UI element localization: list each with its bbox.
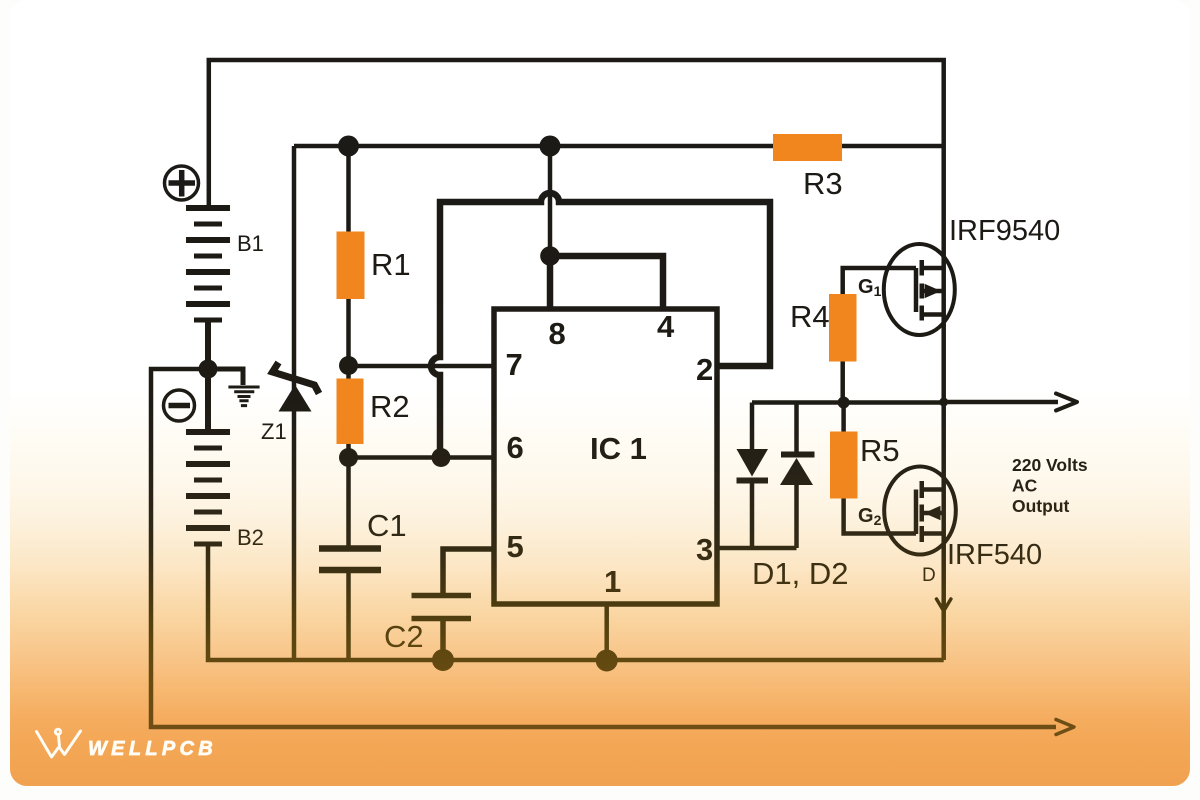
- svg-text:4: 4: [657, 309, 675, 344]
- svg-text:8: 8: [549, 316, 566, 351]
- svg-text:C2: C2: [384, 619, 424, 654]
- svg-text:R3: R3: [803, 166, 843, 201]
- svg-text:R2: R2: [370, 389, 410, 424]
- svg-text:1: 1: [604, 564, 621, 599]
- svg-text:R4: R4: [790, 299, 830, 334]
- svg-text:220 Volts: 220 Volts: [1012, 455, 1088, 475]
- svg-text:6: 6: [507, 430, 524, 465]
- svg-text:5: 5: [507, 529, 524, 564]
- svg-text:R5: R5: [860, 433, 900, 468]
- svg-text:B1: B1: [237, 231, 264, 256]
- svg-text:R1: R1: [371, 247, 411, 282]
- svg-text:D: D: [922, 565, 936, 586]
- svg-text:C1: C1: [367, 508, 407, 543]
- svg-text:IC 1: IC 1: [590, 431, 647, 466]
- svg-text:Z1: Z1: [261, 419, 287, 444]
- svg-text:7: 7: [506, 347, 523, 382]
- svg-text:B2: B2: [237, 525, 264, 550]
- svg-text:Output: Output: [1012, 496, 1070, 516]
- svg-text:D1, D2: D1, D2: [752, 556, 848, 591]
- svg-text:2: 2: [696, 352, 713, 387]
- svg-text:IRF540: IRF540: [947, 539, 1042, 571]
- svg-text:3: 3: [696, 532, 713, 567]
- svg-text:AC: AC: [1012, 476, 1038, 496]
- svg-text:IRF9540: IRF9540: [949, 215, 1060, 247]
- svg-text:WELLPCB: WELLPCB: [88, 738, 217, 760]
